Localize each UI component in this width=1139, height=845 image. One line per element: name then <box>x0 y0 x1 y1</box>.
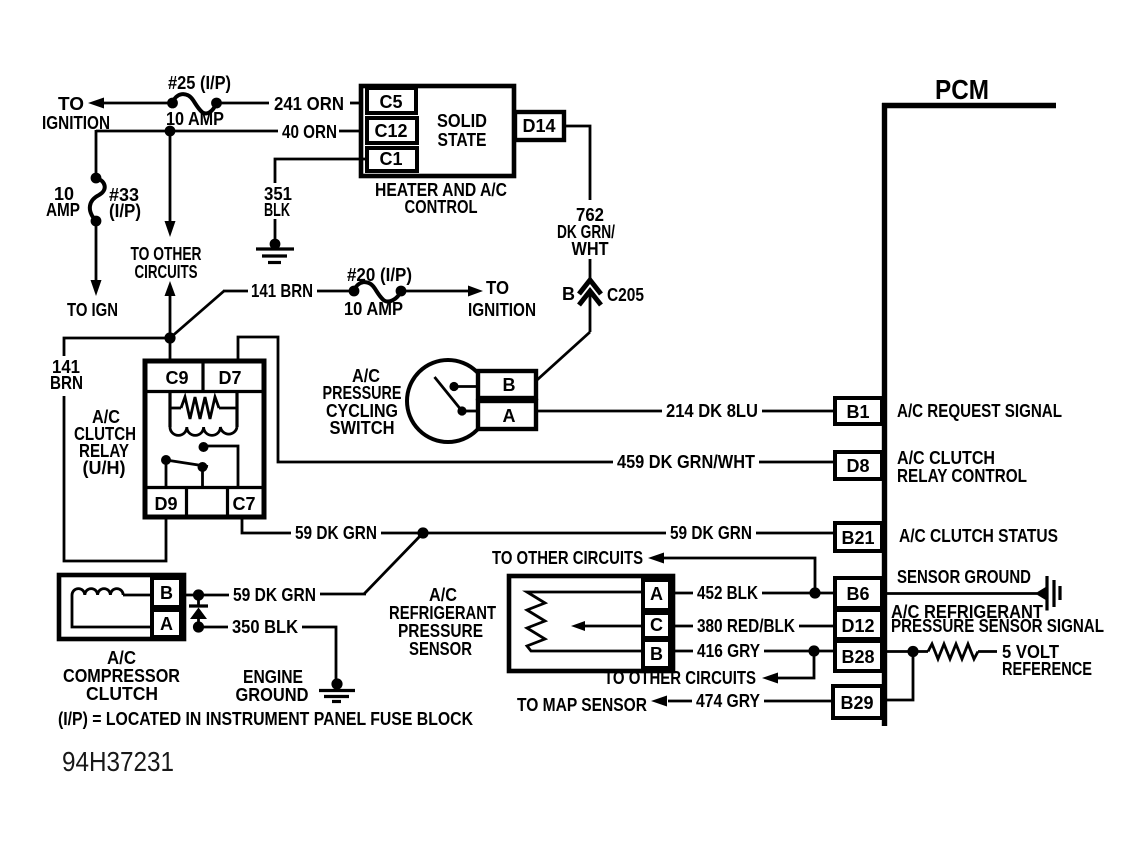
wire 380 RED/BLK to D12 <box>670 625 835 628</box>
wire diagonal junction A to 141 BRN run <box>170 291 224 338</box>
svg-text:REFERENCE: REFERENCE <box>1002 659 1092 679</box>
heater and A/C control module U1 <box>361 86 514 176</box>
wire junction A down to relay C9 <box>169 338 172 361</box>
svg-text:10 AMP: 10 AMP <box>166 109 224 129</box>
svg-text:ENGINE: ENGINE <box>243 667 303 687</box>
svg-text:SWITCH: SWITCH <box>330 418 395 438</box>
wire to other circuits (lower) <box>762 651 814 684</box>
svg-text:TO: TO <box>58 94 84 114</box>
label 351 BLK <box>264 184 292 220</box>
label A/C REFRIGERANT PRESSURE SENSOR SIGNAL <box>891 602 1104 636</box>
svg-text:40 ORN: 40 ORN <box>282 122 337 142</box>
relay K1 A/C clutch relay outer box <box>145 361 264 517</box>
svg-text:C: C <box>650 615 663 635</box>
wire junction down to B29 <box>884 652 913 701</box>
wire 40 ORN horizontal run <box>96 130 362 133</box>
compressor clutch coil <box>72 589 152 627</box>
wire C1 to ground 351 BLK <box>275 159 366 183</box>
svg-text:COMPRESSOR: COMPRESSOR <box>63 666 180 686</box>
sensor wiper arrow <box>571 621 643 631</box>
pin C1 <box>367 148 417 171</box>
pin A (compressor) <box>152 610 181 637</box>
wire 141 BRN horizontal run <box>223 286 483 297</box>
wire B28 to 5 volt reference resistor <box>887 644 997 659</box>
wire left branch down to fuse 33 <box>95 130 98 173</box>
node junction A <box>164 332 175 343</box>
svg-text:141 BRN: 141 BRN <box>251 281 313 301</box>
A/C compressor clutch box <box>59 575 184 639</box>
label HEATER AND A/C CONTROL <box>375 180 507 217</box>
svg-text:AMP: AMP <box>46 200 80 220</box>
svg-text:94H37231: 94H37231 <box>62 746 174 777</box>
svg-text:CIRCUITS: CIRCUITS <box>135 262 198 282</box>
svg-text:B21: B21 <box>841 528 874 548</box>
pin C (sensor) <box>643 613 670 638</box>
svg-text:TO OTHER CIRCUITS: TO OTHER CIRCUITS <box>604 668 756 688</box>
svg-text:452 BLK: 452 BLK <box>697 583 758 603</box>
fuse #25 (I/P) 10 AMP <box>166 73 231 129</box>
svg-text:A/C CLUTCH: A/C CLUTCH <box>897 448 995 468</box>
svg-text:GROUND: GROUND <box>236 685 309 705</box>
diode D1 across clutch coil <box>189 589 208 632</box>
svg-text:BRN: BRN <box>50 373 83 393</box>
svg-text:C7: C7 <box>232 494 255 514</box>
svg-text:#25 (I/P): #25 (I/P) <box>168 73 231 93</box>
label A/C CLUTCH RELAY CONTROL <box>897 448 1027 486</box>
svg-text:A: A <box>503 406 516 426</box>
sensor ground symbol <box>1035 576 1060 611</box>
label A/C PRESSURE CYCLING SWITCH <box>323 366 402 438</box>
fuse #33 (I/P) 10 AMP <box>46 173 141 227</box>
node TO IGNITION (fuse 20) <box>468 278 536 320</box>
svg-text:B1: B1 <box>846 402 869 422</box>
svg-text:TO OTHER: TO OTHER <box>131 244 202 264</box>
relay contact arm <box>161 442 238 487</box>
pin C5 <box>367 88 416 113</box>
label 5 VOLT REFERENCE <box>1002 642 1092 679</box>
label 141 BRN (left vertical) <box>50 357 83 393</box>
svg-text:TO OTHER CIRCUITS: TO OTHER CIRCUITS <box>492 548 643 568</box>
fuse #20 (I/P) 10 AMP <box>344 265 412 319</box>
svg-text:C5: C5 <box>379 92 402 112</box>
pin A (pressure switch) <box>478 401 536 429</box>
wire C205 to pressure switch B <box>537 295 590 380</box>
svg-text:D14: D14 <box>522 116 555 136</box>
svg-text:B: B <box>562 284 575 304</box>
label A/C REFRIGERANT PRESSURE SENSOR <box>389 585 496 659</box>
svg-text:C9: C9 <box>165 368 188 388</box>
svg-text:C205: C205 <box>607 285 644 305</box>
svg-text:A/C: A/C <box>107 648 136 668</box>
wire 350 BLK to engine ground <box>204 627 336 680</box>
label ENGINE GROUND <box>236 667 309 705</box>
pin B21 <box>835 523 882 551</box>
svg-text:59 DK GRN: 59 DK GRN <box>233 585 316 605</box>
svg-text:416 GRY: 416 GRY <box>697 641 760 661</box>
pin B (sensor) <box>643 640 670 668</box>
svg-text:A/C REQUEST SIGNAL: A/C REQUEST SIGNAL <box>897 401 1062 421</box>
svg-text:SENSOR: SENSOR <box>409 639 472 659</box>
wire 241 ORN horizontal run <box>88 98 362 109</box>
svg-text:241 ORN: 241 ORN <box>274 94 344 114</box>
svg-text:#20 (I/P): #20 (I/P) <box>347 265 412 285</box>
wire 141 BRN left loop down to relay D9 <box>64 338 170 561</box>
svg-text:(I/P) = LOCATED IN INSTRUMENT: (I/P) = LOCATED IN INSTRUMENT PANEL FUSE… <box>58 709 473 729</box>
pin B29 <box>833 686 882 718</box>
svg-text:TO IGN: TO IGN <box>67 300 118 320</box>
svg-text:B6: B6 <box>846 584 869 604</box>
svg-text:474 GRY: 474 GRY <box>696 691 760 711</box>
pin B1 <box>835 398 882 424</box>
wire C7 to 59 DK GRN run <box>242 517 835 533</box>
svg-text:TO MAP SENSOR: TO MAP SENSOR <box>517 695 647 715</box>
svg-text:C12: C12 <box>374 121 407 141</box>
pin D12 <box>835 610 882 639</box>
PCM outline <box>882 103 1056 726</box>
wire junction down to TO OTHER CIRCUITS arrow <box>165 131 176 237</box>
svg-text:BLK: BLK <box>264 200 290 220</box>
label 762 DK GRN/ WHT <box>557 205 615 259</box>
node junction at B28 <box>907 646 918 657</box>
svg-text:REFRIGERANT: REFRIGERANT <box>389 603 496 623</box>
pin C12 <box>367 118 417 143</box>
label A/C COMPRESSOR CLUTCH <box>63 648 180 704</box>
wire 452 BLK to B6 <box>670 592 835 595</box>
sensor potentiometer element <box>527 592 643 651</box>
svg-text:STATE: STATE <box>438 130 487 150</box>
pin D8 <box>835 452 882 479</box>
pin B (compressor) <box>152 578 181 607</box>
wire up-arrow from junction A <box>165 281 176 340</box>
svg-text:B: B <box>503 375 516 395</box>
wire down to TO IGN with arrow <box>91 226 102 296</box>
node junction on 59 DK GRN <box>417 527 428 538</box>
svg-text:214 DK 8LU: 214 DK 8LU <box>666 401 758 421</box>
svg-text:SENSOR GROUND: SENSOR GROUND <box>897 567 1031 587</box>
svg-text:PCM: PCM <box>935 74 989 105</box>
A/C refrigerant pressure sensor box <box>509 576 673 671</box>
node TO IGNITION (top left) <box>42 94 110 133</box>
svg-text:PRESSURE: PRESSURE <box>323 383 402 403</box>
svg-text:TO: TO <box>486 278 509 298</box>
engine ground symbol <box>319 678 355 701</box>
ground (351 BLK) <box>256 239 294 263</box>
wire 214 DK BLU to B1 <box>536 410 835 413</box>
svg-text:RELAY CONTROL: RELAY CONTROL <box>897 466 1027 486</box>
relay top pin row divider <box>145 361 264 392</box>
wire B6 to sensor ground symbol <box>887 592 1037 595</box>
svg-text:C1: C1 <box>379 149 402 169</box>
svg-text:380 RED/BLK: 380 RED/BLK <box>697 616 795 636</box>
svg-text:IGNITION: IGNITION <box>468 300 536 320</box>
pin A (sensor) <box>643 580 670 610</box>
svg-text:PRESSURE: PRESSURE <box>398 621 483 641</box>
node junction on 40 ORN <box>165 126 176 137</box>
svg-text:59 DK GRN: 59 DK GRN <box>295 523 377 543</box>
svg-text:B: B <box>650 644 663 664</box>
svg-text:A: A <box>650 584 663 604</box>
pin B28 <box>835 641 882 671</box>
node TO OTHER CIRCUITS (upper) <box>131 244 202 282</box>
svg-text:459 DK GRN/WHT: 459 DK GRN/WHT <box>617 452 755 472</box>
svg-text:B29: B29 <box>840 693 873 713</box>
svg-text:A: A <box>160 614 173 634</box>
pin D14 <box>515 112 564 140</box>
svg-text:CONTROL: CONTROL <box>405 197 478 217</box>
svg-text:D12: D12 <box>841 616 874 636</box>
pin B (pressure switch) <box>478 371 536 398</box>
relay bottom pin row divider <box>145 487 264 517</box>
svg-text:A/C: A/C <box>429 585 457 605</box>
svg-text:CLUTCH: CLUTCH <box>86 684 158 704</box>
wire D14 to C205 <box>564 126 590 280</box>
connector C205 chevron <box>579 280 601 305</box>
svg-text:(U/H): (U/H) <box>83 458 126 478</box>
wire D7 to 459 run to D8 <box>238 337 835 462</box>
svg-text:B: B <box>160 583 173 603</box>
label A/C CLUTCH RELAY (U/H) <box>74 407 136 478</box>
relay coil L1 <box>170 392 237 435</box>
wire 474 GRY to B29 <box>651 696 833 707</box>
svg-text:A/C CLUTCH STATUS: A/C CLUTCH STATUS <box>899 526 1058 546</box>
svg-text:D8: D8 <box>846 456 869 476</box>
svg-text:SOLID: SOLID <box>437 111 487 131</box>
pin B6 <box>835 578 882 608</box>
svg-text:WHT: WHT <box>572 239 609 259</box>
node junction on 416 GRY <box>808 645 819 656</box>
svg-text:(I/P): (I/P) <box>109 201 141 221</box>
svg-text:D9: D9 <box>154 494 177 514</box>
A/C pressure cycling switch S1 <box>407 360 489 442</box>
wire 416 GRY to B28 <box>670 650 835 653</box>
svg-text:350 BLK: 350 BLK <box>232 617 298 637</box>
wire compressor B to diagonal <box>181 594 366 595</box>
svg-text:PRESSURE SENSOR SIGNAL: PRESSURE SENSOR SIGNAL <box>891 616 1104 636</box>
svg-text:D7: D7 <box>218 368 241 388</box>
svg-text:59 DK GRN: 59 DK GRN <box>670 523 752 543</box>
svg-text:B28: B28 <box>841 647 874 667</box>
svg-text:10 AMP: 10 AMP <box>344 299 403 319</box>
node junction on 452 BLK <box>809 587 820 598</box>
wire diagonal 59 DK GRN to compressor <box>364 533 423 594</box>
wire to other circuits (upper) <box>648 553 815 594</box>
